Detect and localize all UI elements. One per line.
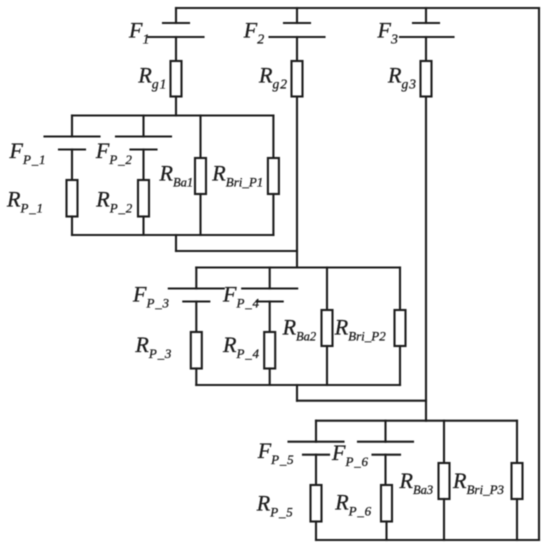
wire block1 bottom to link1 (175, 235, 177, 251)
battery FP4 (242, 268, 297, 333)
wire block1 top edge (72, 114, 273, 116)
battery FP5 (289, 421, 344, 485)
battery FP6 (358, 421, 413, 485)
wire RP1 to block1 bottom (71, 217, 73, 236)
wire Rg1 to block1 top (175, 97, 177, 116)
resistor RBa2 with stubs (322, 268, 333, 386)
wire RP6 to block3 bottom (385, 522, 387, 541)
wire right vertical drop (538, 8, 540, 540)
resistor RBa3 with stubs (439, 421, 450, 540)
resistor RP4 (264, 332, 275, 369)
battery F3 (400, 8, 454, 61)
wire RP2 to block1 bottom (142, 217, 144, 236)
resistor RBriP3 with stubs (512, 421, 523, 540)
wire block2 bottom to link2 (296, 385, 298, 401)
wire block2 bottom edge (196, 384, 400, 386)
wire block2 top edge (196, 266, 400, 268)
resistor Rg3 (421, 61, 432, 97)
wire RP5 to block3 bottom (315, 522, 317, 541)
resistor RP2 (138, 180, 149, 217)
resistor RBa1 with stubs (195, 116, 206, 236)
wire Rg3 to block3 top (425, 97, 427, 421)
resistor RP5 (311, 485, 322, 522)
resistor RP1 (67, 180, 78, 217)
resistor Rg2 (292, 61, 303, 97)
resistor RP6 (381, 485, 392, 522)
battery FP3 (169, 268, 224, 333)
wire block3 bottom edge (316, 539, 539, 541)
wire link1 horizontal to Rg2 line (176, 250, 297, 252)
wire Rg2 to block2 top (296, 97, 298, 268)
resistor RP3 (191, 332, 202, 369)
resistor RBriP1 with stubs (268, 116, 279, 236)
wire top rail (176, 7, 539, 9)
battery F2 (270, 8, 325, 61)
battery FP2 (116, 116, 171, 181)
wire RP3 to block2 bottom (195, 369, 197, 386)
wire RP4 to block2 bottom (269, 369, 271, 386)
battery F1 (149, 8, 204, 61)
wire block1 bottom edge (72, 234, 273, 236)
wire block3 top edge (316, 420, 517, 422)
battery FP1 (45, 116, 100, 181)
resistor Rg1 (171, 61, 182, 97)
wire link2 horizontal to Rg3 line (297, 400, 426, 402)
resistor RBriP2 with stubs (395, 268, 406, 386)
